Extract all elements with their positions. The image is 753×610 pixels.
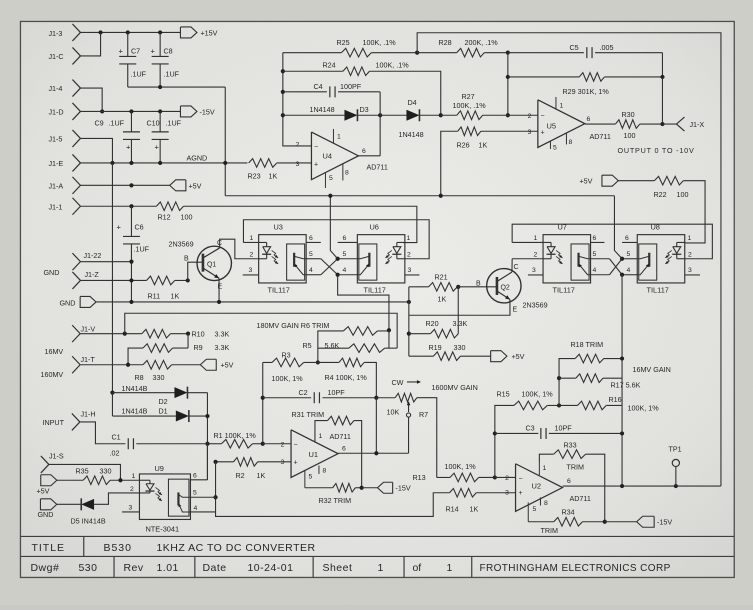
junction AGND x131 xyxy=(129,161,133,165)
connector J1-1 xyxy=(48,198,80,215)
transistor Q1 2N3569 xyxy=(168,239,231,290)
wire J1-1 row xyxy=(80,205,156,207)
node 16MV GAIN label xyxy=(632,365,670,374)
wire feedback node down to R30 xyxy=(661,77,663,124)
wire D2 to D1 anode xyxy=(111,393,113,416)
junction J1-V riser xyxy=(123,332,127,336)
junction D4/R27/R24 xyxy=(439,113,443,117)
junction R17/R18 left xyxy=(557,376,561,380)
wire R3 left riser x=262.3 xyxy=(262,362,264,443)
diode D3 1N4148 xyxy=(283,105,380,121)
wire AGND drop to U6 pin5 xyxy=(330,196,337,259)
U3 pin2 label xyxy=(249,251,253,258)
junction U6 pin4 node xyxy=(336,273,340,277)
U8 pin3 stub xyxy=(685,267,700,275)
node AGND label xyxy=(186,153,207,162)
wire C5 right down to R29 node xyxy=(661,53,663,77)
U8 pin5 wire xyxy=(622,251,637,259)
junction J1-4/J1-D xyxy=(100,109,104,113)
capacitor C1 .02 xyxy=(109,433,207,458)
op-amp U2 AD711 xyxy=(505,462,591,521)
wire R25 right to junction xyxy=(371,52,417,54)
wire AGND drop to diodes x=112 xyxy=(111,163,113,393)
junction U9 pin5 bus xyxy=(213,495,217,499)
junction J1-22 x131 xyxy=(129,260,133,264)
rail U7 pin1 to U8 pin2 xyxy=(512,224,712,259)
U3 pin5 wire xyxy=(306,251,321,259)
wire U4 output to D3 node xyxy=(358,148,380,156)
U3 pin4 wire xyxy=(306,267,321,275)
junction R32/R31/-15V xyxy=(360,486,364,490)
node CW label with arrow xyxy=(391,378,421,387)
junction U1 output/R4 xyxy=(374,451,378,455)
wire R24 right to D4 node xyxy=(369,71,440,115)
resistor R9 3.3K xyxy=(128,343,229,365)
resistor R1 100K 1% xyxy=(207,431,262,448)
wire GND riser x=408.4 xyxy=(408,287,410,356)
-15V power arrow xyxy=(180,106,214,117)
wire GND to D5 xyxy=(57,503,82,505)
junction R1/U1 pin2 xyxy=(261,442,265,446)
resistor R4 100K 1% xyxy=(318,358,377,398)
resistor R28 200K .1% xyxy=(417,38,498,57)
resistor R35 330 xyxy=(75,466,139,484)
resistor R25 100K .1% xyxy=(283,38,396,57)
optocoupler U6 TIL117 xyxy=(357,223,405,295)
junction R35/J1-S xyxy=(118,478,122,482)
capacitor C2 10PF xyxy=(263,388,377,403)
+5V power arrow to R22 xyxy=(579,175,618,186)
resistor R22 100 xyxy=(653,176,688,199)
wire top feedback rail to right edge xyxy=(417,33,721,486)
wire U3/U6 crossover diag B xyxy=(321,259,338,275)
trimmer R32 xyxy=(305,483,362,505)
junction R6 right xyxy=(387,328,391,332)
+5V power arrow at J1-A xyxy=(170,180,202,191)
resistor R15 100K 1% xyxy=(495,390,559,478)
junction GND/C6 xyxy=(129,300,133,304)
wire +5V to R22 xyxy=(618,180,654,182)
U6 pin4 wire xyxy=(338,267,358,275)
U8 pin2 label xyxy=(688,251,692,258)
junction R21/Q2 base xyxy=(456,285,460,289)
U9 pin6 wire xyxy=(190,472,207,479)
node R31 TRIM label xyxy=(291,410,324,419)
junction R29 left xyxy=(506,75,510,79)
wire R6 node down to R5 row xyxy=(388,330,390,348)
U6 pin3 stub xyxy=(405,267,420,275)
U7 pin3 stub xyxy=(528,267,543,275)
junction J1-A x131 xyxy=(129,183,133,187)
capacitor C5 .005 xyxy=(508,43,663,58)
connector J1-5 xyxy=(48,130,80,147)
wire U7/U8 crossover diag A xyxy=(609,259,622,275)
wire U9 pin6 riser joins diode bus xyxy=(206,444,208,480)
junction R25/R28/top rail xyxy=(415,51,419,55)
U9 pin3 stub xyxy=(122,504,139,512)
wire to U2 pin2 xyxy=(495,476,516,478)
junction R24 left xyxy=(281,69,285,73)
op-amp U1 AD711 xyxy=(281,430,351,488)
capacitor C8 .1UF xyxy=(150,32,179,87)
transistor Q2 2N3569 xyxy=(476,264,548,314)
resistor R17 5.6K xyxy=(559,374,641,390)
wire Q2 emitter to GND riser xyxy=(409,299,510,315)
U9 pin5 wire xyxy=(190,490,215,498)
wire base riser to R20 xyxy=(457,287,459,334)
wire J1-4 down to -15V row xyxy=(80,88,102,111)
wire Q2 collector to U7 pin2 xyxy=(511,259,513,272)
capacitor C10 .1UF xyxy=(146,111,181,163)
wire input bus x=282.4 xyxy=(283,53,312,146)
wire R28 to junction xyxy=(484,52,508,54)
wire Q2 base xyxy=(458,286,497,288)
junction R11/Q1 base xyxy=(186,278,190,282)
U3 pin1 wire xyxy=(243,235,258,243)
wire Q1 collector to U3 pin2 xyxy=(220,239,259,259)
wire J1-T row xyxy=(80,364,143,366)
node INPUT label xyxy=(42,418,64,427)
wire U8 pin4 node down feedback bus xyxy=(621,275,623,486)
junction C8 bottom xyxy=(158,85,162,89)
U7 pin1 wire xyxy=(512,235,543,243)
junction D3/C4/U4 output xyxy=(378,113,382,117)
junction D1 cathode xyxy=(205,414,209,418)
test point TP1 xyxy=(668,444,681,486)
junction U6 pin5 node xyxy=(336,257,340,261)
title block lines xyxy=(20,536,734,577)
resistor R10 3.3K xyxy=(142,329,230,338)
wire R23 to U4 pin3 xyxy=(277,162,312,164)
capacitor C6 .1UF xyxy=(116,206,149,302)
U8 pin1 label xyxy=(687,235,691,242)
U8 pin6 stub xyxy=(622,235,637,243)
junction output/feedback bus xyxy=(620,484,624,488)
+15V power arrow xyxy=(180,27,217,38)
wire U7/U8 crossover diag B xyxy=(609,259,622,275)
junction D2 anode xyxy=(110,391,114,395)
wire R1 node to U1 pin2 xyxy=(263,443,291,445)
capacitor C7 .1UF xyxy=(118,32,146,87)
diode D4 1N4148 xyxy=(380,98,441,139)
U3 pin3 stub xyxy=(243,267,259,275)
connector J1-E xyxy=(48,154,80,171)
junction C3 right xyxy=(620,431,624,435)
junction R28/C5/vertical xyxy=(506,51,510,55)
junction J1-1 x131 xyxy=(129,204,133,208)
junction GND/R21 xyxy=(407,300,411,304)
wire R27 node to U5 pin2 xyxy=(508,114,538,116)
junction AGND x112 xyxy=(110,161,114,165)
optocoupler U9 NTE-3041 xyxy=(139,464,190,534)
wire R11 to Q1 base junction xyxy=(175,279,188,281)
junction J1-Z x131 xyxy=(129,278,133,282)
junction C3 left xyxy=(493,431,497,435)
resistor R21 1K xyxy=(409,272,458,303)
U7 pin4 wire xyxy=(591,267,610,275)
wire R12 to U6 pin1 riser xyxy=(183,206,416,242)
junction R33/R34/-15V xyxy=(603,520,607,524)
junction C8 top xyxy=(158,30,162,34)
U3 pin6 stub xyxy=(306,235,321,243)
node 160MV label xyxy=(40,370,63,379)
+5V power arrow at R8 xyxy=(200,359,233,370)
connector J1-D xyxy=(48,103,80,120)
wire AGND drop to U8 pin5 xyxy=(614,196,622,259)
wire J1-A to +5V arrow xyxy=(80,184,169,186)
junction C1/R1/clamp xyxy=(205,442,209,446)
connector J1-S xyxy=(41,452,64,473)
wire U3/U6 crossover diag A xyxy=(321,259,338,275)
connector J1-T xyxy=(72,355,95,373)
junction C10 top xyxy=(158,109,162,113)
node OUTPUT label xyxy=(617,146,694,155)
resistor R3 100K 1% xyxy=(263,350,318,383)
wire R22 to U8 pin1 xyxy=(683,181,705,243)
junction AGND rail x330 xyxy=(328,194,332,198)
node 180MV GAIN R6 TRIM label xyxy=(256,321,329,330)
wire C2 node to pot R7 xyxy=(376,397,395,399)
wire C7/C8 bottom rail to AGND drop xyxy=(128,86,226,88)
connector J1-V xyxy=(72,324,95,342)
U9 pin1 label xyxy=(131,473,135,480)
wire J1-3 to +15V xyxy=(80,31,180,33)
wire J1-C up to J1-3 row xyxy=(80,32,100,56)
title block text row 2 xyxy=(30,562,670,574)
trimmer R18 xyxy=(559,340,622,378)
wire U5 output to R30 xyxy=(585,116,616,124)
wire U6 pin4 node down to R6 node xyxy=(338,275,389,331)
resistor R24 100K .1% xyxy=(283,60,409,75)
resistor R30 100 xyxy=(615,110,662,140)
rail U3 pin1 to U6 pin2 xyxy=(243,220,429,259)
diode D2 1N4148 xyxy=(112,384,207,406)
wire 180MV line from J1-V xyxy=(125,313,397,348)
junction AGND x224.8 xyxy=(223,161,227,165)
wire AGND row xyxy=(80,162,247,164)
resistor R13 100K 1% xyxy=(412,462,494,482)
U9 pin2 label xyxy=(130,486,134,493)
junction R15/R16 xyxy=(557,403,561,407)
junction U8 pin4 node xyxy=(620,273,624,277)
connector J1-H xyxy=(72,409,96,430)
connector J1-C xyxy=(48,47,80,64)
node 16MV label xyxy=(44,347,63,356)
junction R30/J1-X xyxy=(660,122,664,126)
resistor R20 3.3K xyxy=(409,319,468,338)
junction J1-T/R9 xyxy=(126,363,130,367)
U7 pin2 wire xyxy=(512,251,543,258)
wire pot right to R13 xyxy=(417,398,437,478)
connector J1-22 xyxy=(72,251,101,270)
resistor R27 100K .1% xyxy=(441,92,508,120)
wire U2 output row xyxy=(563,478,721,486)
capacitor C9 .1UF xyxy=(94,111,140,163)
wire J1-22 to C6 line xyxy=(80,261,131,263)
connector J1-3 xyxy=(48,24,80,41)
op-amp U4 AD711 xyxy=(296,129,388,188)
wire C4-D3-output riser x=379.7 xyxy=(379,92,381,156)
wire J1-V row xyxy=(80,333,142,335)
U7 pin5 wire xyxy=(591,251,610,259)
capacitor C3 10PF xyxy=(495,423,622,439)
resistor R8 330 xyxy=(134,360,200,382)
wire R17/R18 left riser xyxy=(558,378,560,405)
trimmer R33 xyxy=(539,441,604,522)
capacitor C4 100PF xyxy=(283,82,380,97)
wire Q1 base riser xyxy=(188,262,203,280)
U7 pin6 stub xyxy=(591,235,605,243)
title block text row 1 xyxy=(31,542,315,554)
U6 pin5 wire xyxy=(338,251,358,259)
+5V power arrow at R35 xyxy=(36,475,56,496)
junction R20 left xyxy=(407,332,411,336)
U9 pin4 stub xyxy=(190,505,215,512)
connector J1-4 xyxy=(48,80,80,97)
resistor R16 100K 1% xyxy=(559,395,659,413)
junction R13/R15 bus/U2 pin2 xyxy=(493,475,497,479)
op-amp U5 AD711 xyxy=(528,97,611,152)
junction R2 left xyxy=(213,460,217,464)
resistor R19 330 xyxy=(409,343,491,361)
wire GND row xyxy=(96,301,409,303)
optocoupler U8 TIL117 xyxy=(637,223,685,295)
wire J1-Z row xyxy=(80,279,146,281)
optocoupler U7 TIL117 xyxy=(543,223,591,295)
connector J1-Z xyxy=(72,270,99,289)
scan texture overlay xyxy=(0,0,1,1)
junction R5/R6/R3-R4 node xyxy=(316,360,320,364)
junction R29/C5 right xyxy=(660,75,664,79)
junction R10 right xyxy=(186,332,190,336)
wire J1-S to R35 node xyxy=(49,464,121,480)
wire R5/R6 left riser xyxy=(318,331,344,363)
junction R18 right xyxy=(620,356,624,360)
-15V power arrow at R32 xyxy=(362,482,411,493)
wire vertical x=507.4 xyxy=(507,53,509,116)
wire J1-H to C1 xyxy=(80,422,126,444)
diode D1 1N4148 xyxy=(112,406,207,422)
junction C9 top xyxy=(129,109,133,113)
junction C2/R4/pot node xyxy=(374,396,378,400)
wire AGND rail xyxy=(225,195,614,197)
trimmer R31 xyxy=(315,416,362,488)
junction AGND x159.7 xyxy=(158,161,162,165)
node GND label for J1-22/J1-Z xyxy=(43,268,59,277)
connector J1-A xyxy=(48,177,80,194)
-15V power arrow at R34 xyxy=(605,516,673,527)
junction C4 left xyxy=(281,90,285,94)
U6 pin2 label xyxy=(407,251,411,258)
wire diode cathode bus x=207 xyxy=(206,393,208,480)
junction J1-3/J1-C xyxy=(98,30,102,34)
resistor R29 301K 1% xyxy=(508,73,663,96)
wire Q1 emitter to GND row xyxy=(218,278,220,302)
resistor R12 100 xyxy=(156,202,192,222)
trimmer R34 xyxy=(528,508,605,536)
junction GND/Q1 emitter xyxy=(217,300,221,304)
junction D3 left xyxy=(281,113,285,117)
trimmer R6 xyxy=(343,327,389,336)
resistor R5 5.6K xyxy=(302,341,397,352)
diode D5 1N4148 xyxy=(70,493,139,526)
junction output/TP1 xyxy=(674,484,678,488)
resistor R2 1K xyxy=(216,458,292,481)
+5V power arrow at R19 xyxy=(491,351,525,362)
resistor R26 1K xyxy=(441,127,538,196)
junction U8 pin5 node xyxy=(620,257,624,261)
wire +5V to R35 xyxy=(57,479,83,481)
wire J1-5 down to AGND row xyxy=(80,138,112,163)
junction C7 top xyxy=(126,30,130,34)
GND power arrow at D5 xyxy=(37,499,56,519)
U8 pin4 wire xyxy=(622,267,637,275)
junction C2 left xyxy=(261,396,265,400)
junction AGND rail R26 xyxy=(439,194,443,198)
resistor R14 1K xyxy=(216,462,516,517)
connector J1-X xyxy=(662,117,704,131)
GND power arrow mid-left xyxy=(59,296,96,307)
junction R27 right / U5 pin2 xyxy=(506,113,510,117)
optocoupler U3 TIL117 xyxy=(259,223,307,295)
wire R10 to R9 riser xyxy=(187,334,189,348)
wire J1-D row to -15V arrow xyxy=(80,110,180,112)
U6 pin1 label xyxy=(406,235,410,242)
wire U1 output row xyxy=(338,445,409,453)
U6 pin6 stub xyxy=(338,235,358,243)
wire AGND vertical x=224.8 xyxy=(224,87,226,196)
wire R4 riser to U1 output xyxy=(375,398,377,454)
resistor R23 1K xyxy=(247,159,277,181)
resistor R11 1K xyxy=(146,276,179,300)
potentiometer R7 10K xyxy=(386,393,428,453)
node 1600MV GAIN label xyxy=(431,383,477,392)
